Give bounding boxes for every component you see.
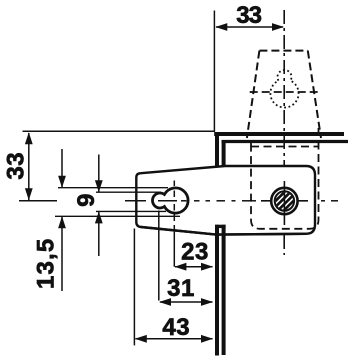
13.5 dim upper extension line (keyhole big circle top tangent) xyxy=(58,187,168,189)
left 33 dimension line xyxy=(28,133,30,200)
svg-text:33: 33 xyxy=(236,2,261,29)
top 33 right arrow xyxy=(272,23,284,31)
9 dim upper extension line (small lobe top tangent) xyxy=(96,191,161,193)
keyhole horizontal centerline dashes xyxy=(125,200,146,202)
glass panel lower segment top cap xyxy=(215,225,226,228)
31 left arrow xyxy=(159,298,171,306)
mounting plate body and arm outline xyxy=(136,166,315,235)
glass panel front wall upper segment xyxy=(215,133,219,168)
9 dimension line upper tail xyxy=(98,155,100,193)
13.5 dim lower extension line (keyhole big circle bottom tangent) xyxy=(55,215,180,217)
13.5 down arrow xyxy=(58,176,66,188)
svg-text:23: 23 xyxy=(181,239,209,266)
horizontal centerline through screw xyxy=(261,200,308,202)
top view: dashed trapezoid hinge arm outline, top edge xyxy=(259,50,307,52)
43 right arrow xyxy=(201,335,213,343)
31 extension line xyxy=(158,211,160,301)
13.5 dimension line lower tail xyxy=(61,217,63,292)
vertical dash-dot centerline (hinge axis, top view + screw) xyxy=(283,10,285,255)
keyhole vertical centerline dashes xyxy=(173,181,175,187)
top view horizontal dashed centerline xyxy=(250,91,321,93)
extension line for top 33 dim (panel front face extended up) xyxy=(213,11,215,132)
glass panel front wall lower segment xyxy=(215,225,219,356)
horizontal dash-dot centerline middle pieces xyxy=(194,200,200,202)
top 33 dimension line xyxy=(216,26,283,28)
top view dotted pear-shaped hole xyxy=(270,70,298,107)
horizontal centerline right dashes xyxy=(321,200,325,202)
31 dimension line xyxy=(160,301,213,303)
screw head outer circle xyxy=(271,188,297,214)
screw head inner circle xyxy=(275,191,294,210)
31 right arrow xyxy=(201,298,213,306)
43 left arrow xyxy=(135,335,147,343)
svg-text:31: 31 xyxy=(167,275,195,302)
13.5 up arrow xyxy=(58,216,66,228)
23 dimension line xyxy=(175,266,213,268)
43 dimension line xyxy=(136,338,213,340)
svg-text:13,5: 13,5 xyxy=(33,238,60,290)
glass panel back wall lower segment xyxy=(222,225,226,355)
dashed hinge arm side view outline over plate xyxy=(251,128,319,229)
svg-text:33: 33 xyxy=(3,152,30,180)
13.5 dimension line upper tail xyxy=(61,149,63,188)
9 up arrow xyxy=(95,211,103,223)
top view trapezoid right side xyxy=(308,51,321,138)
left 33 down arrow xyxy=(25,188,33,200)
screw slot diagonal hatching xyxy=(273,190,296,213)
plate bottom edge redrawn across panel walls xyxy=(141,227,306,235)
glass panel inner thick line horizontal xyxy=(222,140,349,143)
screw vertical centerline tick xyxy=(283,181,285,225)
23 left arrow xyxy=(174,263,186,271)
keyhole slot (pear union of two circles) xyxy=(152,188,188,213)
left 33 up arrow xyxy=(25,132,33,144)
9 dimension line lower tail xyxy=(98,212,100,257)
9 down arrow xyxy=(95,180,103,192)
23 extension (keyhole centerline continued down) xyxy=(173,225,175,267)
top view trapezoid left side xyxy=(247,51,260,138)
panel top thin line (extension of glass top surface to the left) xyxy=(23,130,216,132)
43 extension line xyxy=(133,229,135,346)
glass panel back wall upper segment xyxy=(222,141,226,167)
svg-text:43: 43 xyxy=(162,314,190,341)
23 right arrow xyxy=(201,263,213,271)
glass panel outer thick line horizontal xyxy=(214,132,344,136)
svg-text:9: 9 xyxy=(73,194,100,207)
horizontal centerline left piece xyxy=(19,200,57,202)
9 dim lower extension line (small lobe bottom tangent) xyxy=(96,210,166,212)
top 33 left arrow xyxy=(215,23,227,31)
